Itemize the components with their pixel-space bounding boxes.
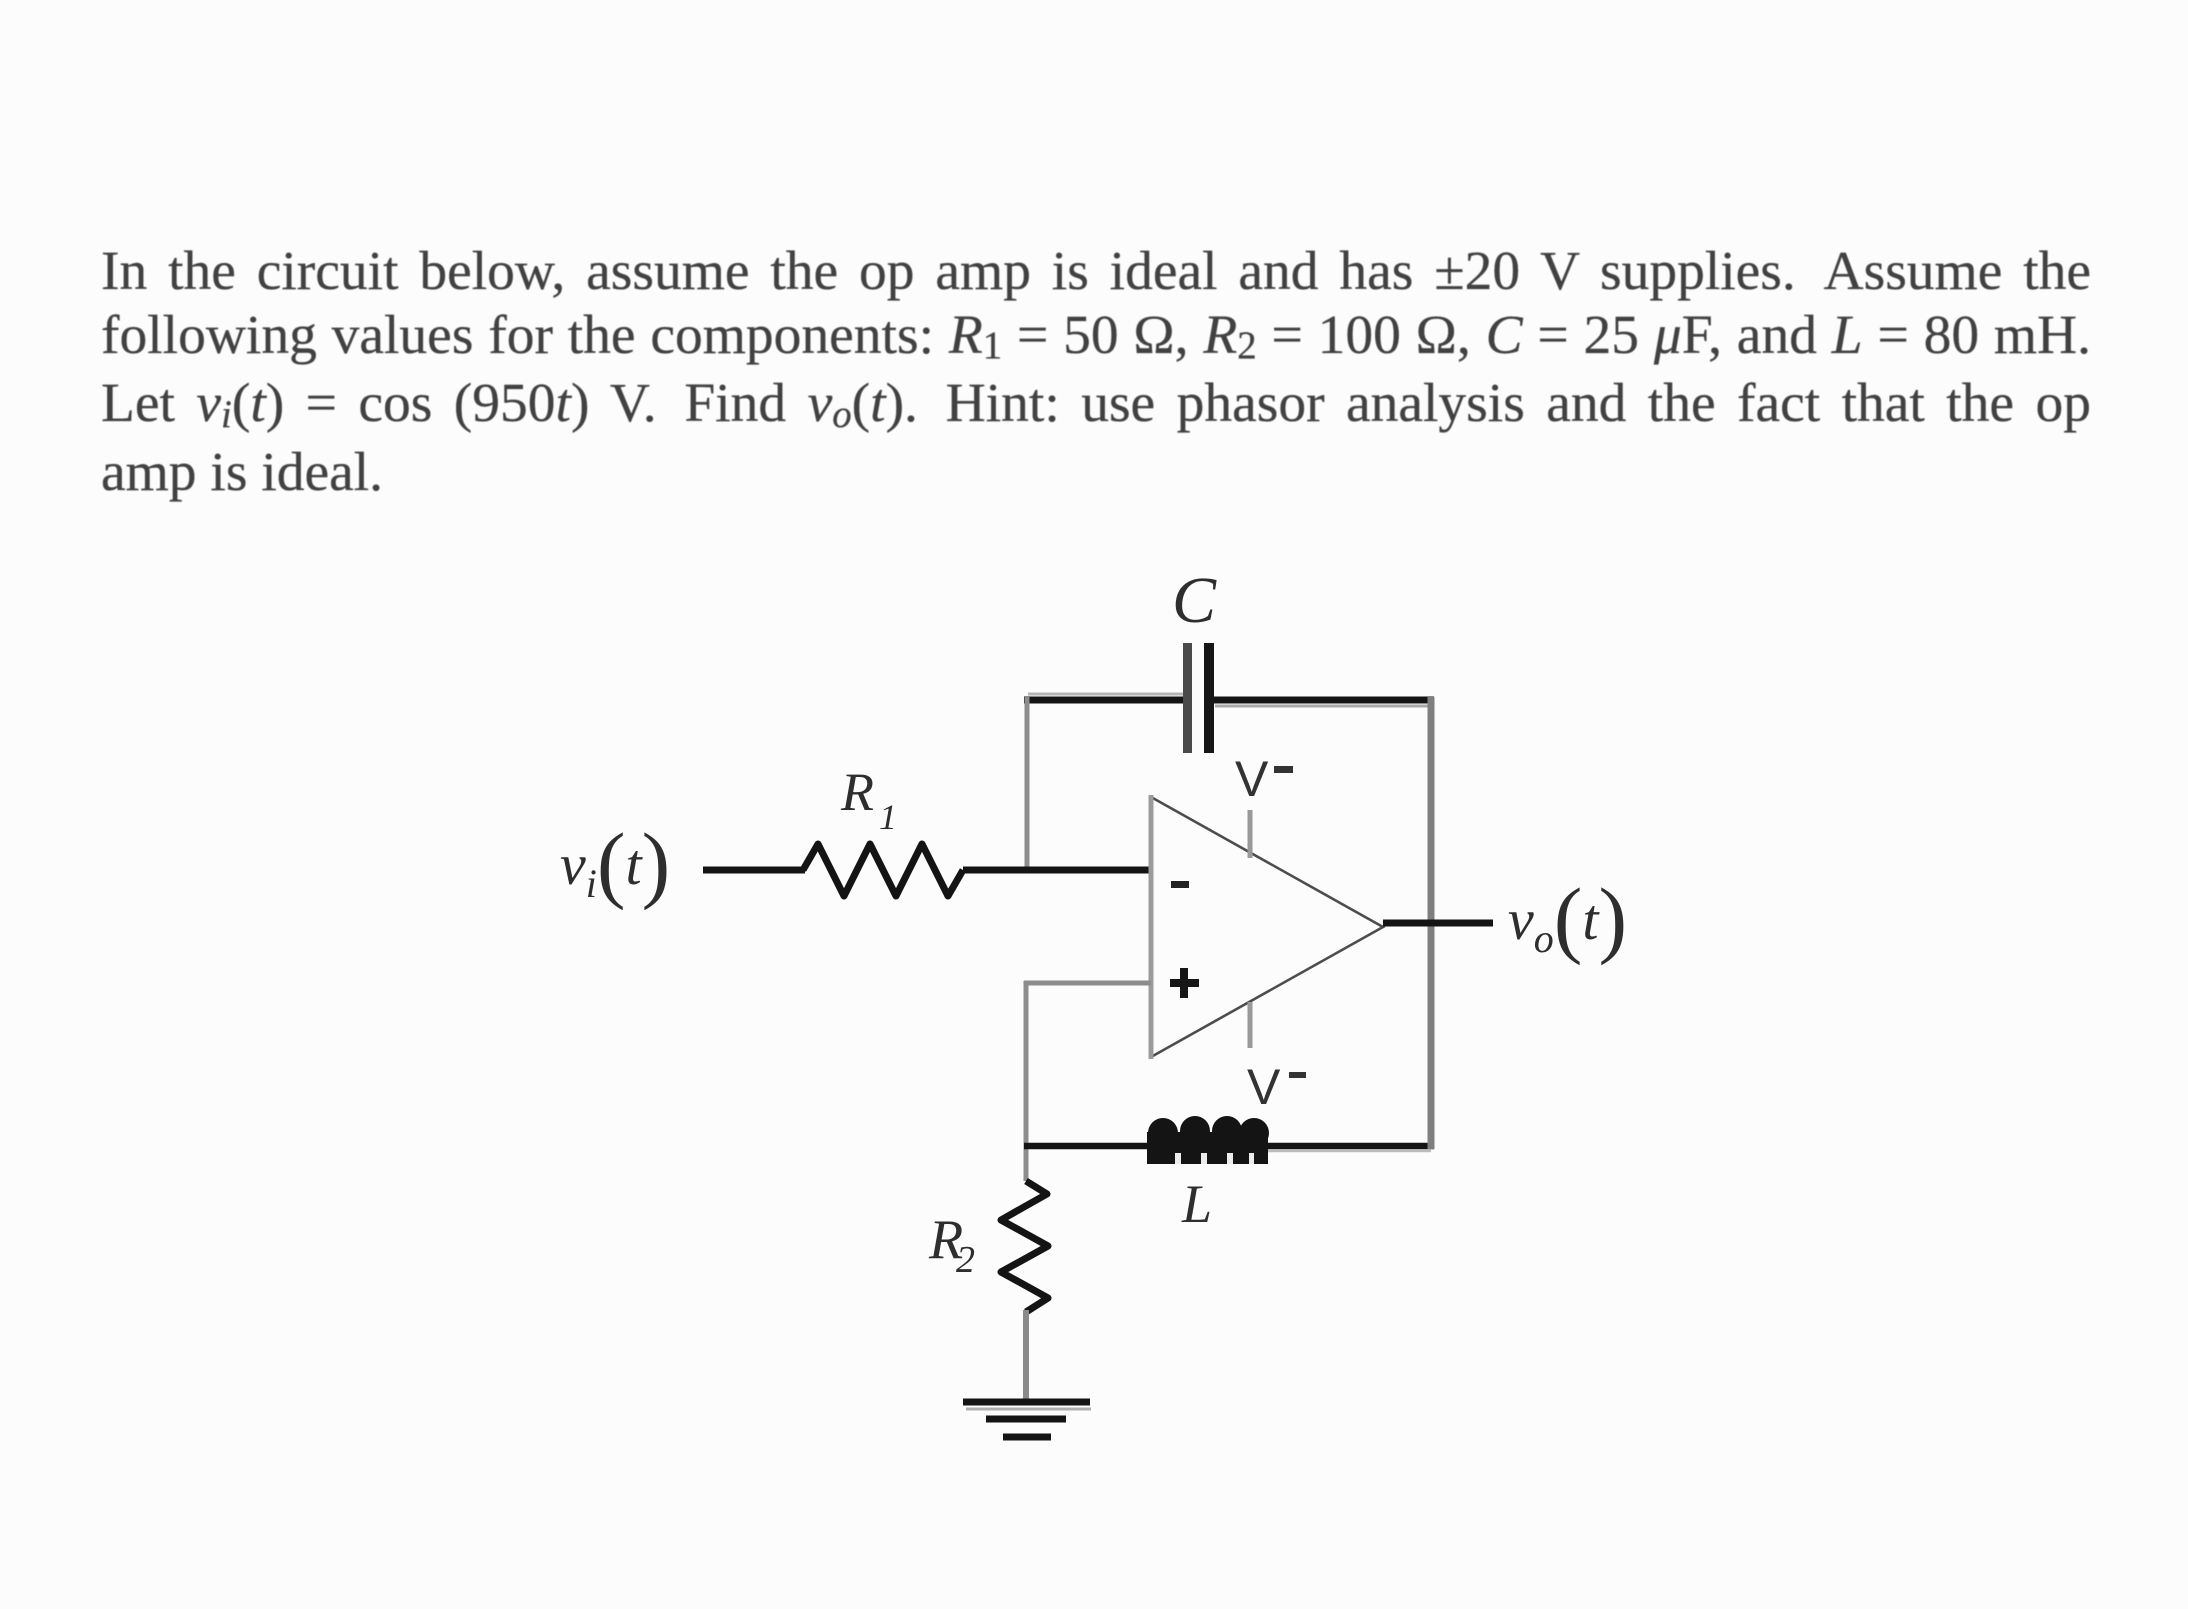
svg-text:V: V [1247,1059,1281,1115]
svg-text:vi(t): vi(t) [560,815,670,911]
svg-text:C: C [1172,564,1217,637]
svg-text:L: L [1181,1174,1212,1234]
svg-text:R: R [840,762,874,822]
svg-text:1: 1 [879,797,897,837]
svg-text:V: V [1235,751,1269,807]
svg-text:vo(t): vo(t) [1508,870,1627,966]
svg-text:2: 2 [956,1239,975,1281]
